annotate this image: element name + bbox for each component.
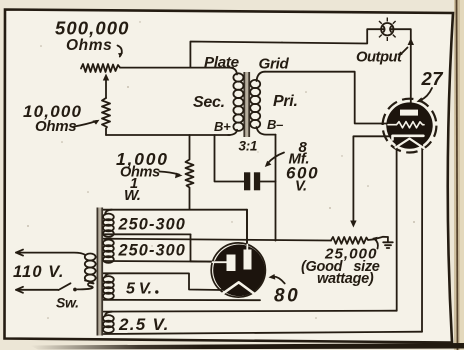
svg-text:110 V.: 110 V. xyxy=(13,263,65,281)
T1 sec bottom lead (B+) xyxy=(228,130,237,135)
resistor R4 25,000 xyxy=(331,237,388,244)
svg-text:B+: B+ xyxy=(214,119,231,134)
label arrow to R2 xyxy=(74,121,97,127)
ground symbol xyxy=(387,237,389,242)
110V top lead with arrow xyxy=(17,253,86,255)
wire capacitor right to B- line xyxy=(260,181,275,183)
tube V1 cathode bar xyxy=(393,136,424,140)
tube V1 filament xyxy=(396,139,425,149)
svg-text:500,000: 500,000 xyxy=(55,18,130,39)
potentiometer wiper arrow on R1 xyxy=(105,77,107,98)
rail W1 top to tube 80 plate2 xyxy=(104,210,248,248)
lamp rays xyxy=(376,18,400,42)
wire grid to tube 27 xyxy=(265,72,390,124)
transformer T1 secondary coil xyxy=(233,73,243,131)
svg-text:Ohms: Ohms xyxy=(66,37,112,54)
rail 2.5V top to 27 heater xyxy=(104,310,397,313)
T2 winding 250-300 #1 xyxy=(103,214,114,237)
svg-text:Ohms: Ohms xyxy=(35,118,76,135)
T2 primary 110V coil xyxy=(85,254,96,282)
tube V2 80 envelope xyxy=(213,244,265,296)
label arrow to R3 xyxy=(160,172,180,175)
transformer T1 core xyxy=(244,72,250,137)
svg-text:Grid: Grid xyxy=(259,56,290,73)
rail 2.5V bottom to 27 heater xyxy=(104,332,423,334)
wire plate junction up xyxy=(190,29,381,67)
svg-text:5 V.: 5 V. xyxy=(126,281,152,298)
wire lamp to tube 27 plate xyxy=(394,29,411,108)
capacitor C1 8 Mf plates xyxy=(244,172,250,190)
rail W2 bottom to tube 80 plate1 xyxy=(104,260,216,263)
T2 winding 5V xyxy=(103,276,114,299)
svg-text:Output: Output xyxy=(356,50,403,66)
resistor R2 10,000 Ohms xyxy=(102,98,110,135)
wire B+ rail xyxy=(106,134,230,136)
transformer T2 core xyxy=(97,208,103,336)
transformer T1 primary coil xyxy=(250,80,260,128)
label arrow to 25k xyxy=(375,240,378,249)
T1 pri bottom lead (B-) xyxy=(257,127,276,135)
label arrow output xyxy=(400,48,408,56)
svg-text:wattage): wattage) xyxy=(317,271,374,287)
110V bottom lead curl xyxy=(78,281,94,290)
tube V1 grid (white zigzag) xyxy=(388,122,424,128)
svg-text:Pri.: Pri. xyxy=(273,93,298,110)
tube V2 white leads xyxy=(246,245,248,251)
svg-text:2.5 V.: 2.5 V. xyxy=(118,315,170,334)
wire cathode of 27 to 25k wiper xyxy=(353,136,390,223)
resistor R1 500,000 Ohms xyxy=(81,64,120,72)
svg-text:W.: W. xyxy=(124,187,141,204)
tube V1 27 heater leads xyxy=(396,140,398,311)
rail W1 bottom xyxy=(104,233,191,235)
rail W2 top to 25k xyxy=(104,239,332,241)
wire 500k to transformer sec top (Plate lead) xyxy=(120,67,233,69)
tube V2 plates xyxy=(227,255,236,272)
label arrow to 80 xyxy=(272,276,285,283)
svg-text:Plate: Plate xyxy=(204,54,240,71)
svg-text:Sw.: Sw. xyxy=(56,295,79,311)
wire B- vertical xyxy=(275,135,277,241)
svg-text:250-300: 250-300 xyxy=(118,216,186,234)
svg-text:3:1: 3:1 xyxy=(239,139,258,154)
T2 winding 2.5V xyxy=(103,315,114,333)
wire B+ down to capacitor xyxy=(215,135,245,182)
resistor R3 1,000 Ohms xyxy=(186,135,194,210)
T2 winding 250-300 #2 xyxy=(103,240,114,263)
switch wire with arrow xyxy=(17,289,58,291)
rail 5V top with jog xyxy=(104,273,223,290)
svg-text:Ohms: Ohms xyxy=(120,165,160,181)
switch Sw contact dot xyxy=(73,288,77,292)
lamp output bulb xyxy=(381,23,393,35)
switch blade xyxy=(59,283,71,290)
tube V2 filament xyxy=(221,282,256,295)
tube V1 plate xyxy=(400,110,418,116)
label arrow to C1 xyxy=(268,153,285,164)
label arrow to tube 27 xyxy=(420,88,432,101)
svg-text:27: 27 xyxy=(421,68,445,89)
tube V1 27 envelope xyxy=(386,102,432,148)
svg-text:80: 80 xyxy=(274,286,300,307)
label arrow to R1 xyxy=(118,46,122,57)
T1 sec top lead xyxy=(229,68,237,75)
tube V2 80 top plate lead xyxy=(246,210,248,250)
junction jog W1bot to plate lead xyxy=(190,234,192,261)
svg-text:Sec.: Sec. xyxy=(193,94,225,111)
tube V2 80 left plate lead xyxy=(191,260,214,262)
rail 5V bottom xyxy=(104,299,261,301)
svg-text:B–: B– xyxy=(267,117,283,132)
T1 pri top lead (Grid) xyxy=(257,72,266,81)
svg-text:250-300: 250-300 xyxy=(118,242,186,260)
svg-text:V.: V. xyxy=(295,179,307,195)
